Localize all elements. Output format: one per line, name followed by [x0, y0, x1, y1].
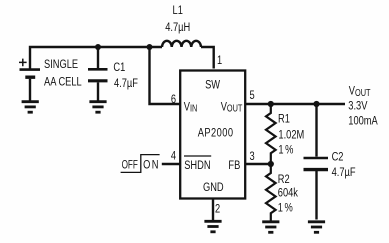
wire: pin 2 GND lead [212, 199, 214, 221]
svg-text:1%: 1% [278, 143, 293, 157]
svg-text:GND: GND [203, 181, 224, 195]
wire: pin 4 SHDN lead [162, 163, 180, 165]
svg-text:C2: C2 [332, 150, 344, 164]
label: C1 value [113, 61, 138, 91]
svg-text:4: 4 [171, 149, 176, 163]
junction node: C1 tap on rail [95, 44, 101, 50]
svg-text:3: 3 [250, 150, 255, 164]
ground (R2) [262, 222, 279, 233]
ground (C1) [89, 102, 106, 113]
svg-text:OFF: OFF [122, 158, 139, 172]
ground (battery) [22, 102, 39, 113]
overline of SHDN label [184, 155, 211, 157]
svg-text:2: 2 [215, 202, 220, 216]
wire: FB to divider node [246, 163, 271, 165]
node VOUT: output labels [348, 85, 378, 129]
svg-text:R1: R1 [278, 112, 290, 126]
resistor R2 [266, 164, 276, 221]
label: SINGLE AA CELL [44, 58, 82, 89]
svg-text:4.7µF: 4.7µF [114, 77, 138, 91]
svg-text:100mA: 100mA [348, 115, 378, 129]
svg-text:SINGLE: SINGLE [44, 58, 78, 72]
svg-text:SW: SW [205, 79, 221, 93]
inductor L1 [162, 41, 201, 47]
svg-text:1: 1 [217, 54, 222, 68]
junction node: C2 top [313, 101, 319, 107]
svg-text:C1: C1 [113, 61, 125, 75]
svg-text:5: 5 [250, 89, 255, 103]
label: C2 value [332, 150, 356, 179]
capacitor C2 [304, 104, 329, 220]
svg-text:6: 6 [171, 93, 176, 107]
svg-text:AP2000: AP2000 [198, 126, 233, 140]
svg-text:4.7µH: 4.7µH [165, 21, 190, 35]
svg-text:1%: 1% [278, 201, 293, 215]
label: R2 value [278, 173, 299, 215]
svg-text:604k: 604k [278, 186, 299, 200]
svg-text:SHDN: SHDN [184, 159, 210, 173]
wire: inductor to pin 1 [201, 47, 214, 69]
svg-text:AA CELL: AA CELL [44, 75, 82, 89]
junction node: VIN branch on rail [147, 44, 153, 50]
capacitor C1 [88, 47, 108, 101]
resistor R1 [266, 104, 276, 164]
junction node: FB divider [268, 161, 274, 167]
label: R1 value [278, 112, 304, 157]
battery B1 (single AA cell) [19, 59, 40, 101]
OFF/ON logic step line at SHDN [121, 155, 160, 173]
ground (C2) [308, 222, 325, 233]
wire: top rail from battery to inductor [30, 47, 162, 69]
wire: VIN branch down to pin 6 [150, 47, 180, 104]
ground (IC pin 2) [204, 221, 221, 232]
svg-text:1.02M: 1.02M [278, 129, 304, 143]
label: L1 value [165, 4, 190, 35]
svg-text:VOUT: VOUT [221, 100, 243, 114]
svg-text:L1: L1 [173, 4, 183, 18]
svg-text:VOUT: VOUT [349, 85, 371, 99]
svg-text:3.3V: 3.3V [348, 99, 368, 113]
svg-text:VIN: VIN [184, 100, 198, 114]
svg-text:R2: R2 [278, 173, 290, 187]
wire: pin 5 output rail [246, 103, 346, 105]
svg-text:FB: FB [228, 159, 240, 173]
svg-text:4.7µF: 4.7µF [332, 166, 356, 180]
junction node: R1 top [268, 101, 274, 107]
op-amp / IC U1 AP2000 body [180, 71, 245, 199]
